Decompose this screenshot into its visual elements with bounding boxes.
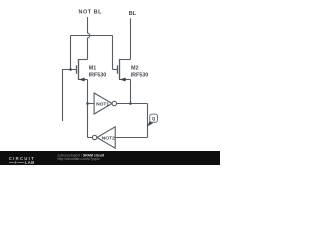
wire NOT2 output lead to left rail [88, 137, 93, 139]
wire NOT BL vertical to M1 drain (lower) [87, 38, 89, 60]
flag Q pointer [147, 121, 153, 127]
wire M2 gate lead [113, 69, 118, 71]
gate NOT1 bubble [112, 101, 116, 105]
transistor M1 source lead [79, 79, 88, 81]
svg-text:LAB: LAB [25, 160, 35, 165]
transistor M2 gate bar [117, 65, 119, 74]
wire NOT2 input from right rail [115, 137, 147, 139]
wire bus right end down to M2 gate [112, 36, 114, 70]
transistor M2 drain lead [120, 59, 131, 61]
transistor M2 source lead [120, 79, 131, 81]
transistor M1 source arrow [79, 78, 85, 82]
svg-text:M1: M1 [89, 65, 97, 71]
wire NOT1 input lead [88, 103, 95, 105]
gate NOT2 bubble [92, 135, 96, 139]
gate NOT1 triangle [94, 93, 112, 114]
svg-text:http://circuitlab.com/c/7pq4v: http://circuitlab.com/c/7pq4v [58, 157, 100, 161]
svg-text:M2: M2 [131, 65, 139, 71]
wire right rail down [147, 104, 149, 138]
svg-text:BL: BL [129, 11, 137, 17]
flag Q box [150, 114, 158, 122]
node junction M1 gate [69, 68, 72, 71]
transistor M1 channel bar [78, 59, 80, 80]
svg-text:NOT BL: NOT BL [79, 9, 103, 15]
transistor M1 gate bar [76, 65, 78, 74]
wire gate bus horizontal [71, 35, 113, 37]
transistor M2 channel bar [119, 59, 121, 80]
gate NOT2 triangle [97, 127, 115, 148]
transistor M2 source arrow [120, 78, 126, 82]
wire bus left end down to M1 gate [70, 36, 72, 70]
footer bar [0, 151, 220, 165]
svg-text:IRF530: IRF530 [131, 72, 149, 78]
node junction M2 source [129, 102, 132, 105]
wire NOT BL vertical to M1 drain (upper) [87, 17, 89, 33]
wire hop over gate bus [88, 33, 90, 38]
wire NOT1 output to right rail [117, 103, 148, 105]
transistor M1 drain lead [79, 59, 88, 61]
wire M1 gate lead [71, 69, 77, 71]
wire M1 source down to NOT2 output level [87, 80, 89, 138]
svg-text:IRF530: IRF530 [89, 72, 107, 78]
wire WL stub [63, 70, 71, 122]
svg-text:NOT2: NOT2 [102, 135, 115, 141]
wire M2 source down [130, 80, 132, 104]
footer logo wire glyph [9, 161, 24, 164]
svg-text:NOT1: NOT1 [96, 102, 109, 108]
node junction NOT1 input [86, 102, 89, 105]
svg-text:Q: Q [152, 116, 156, 121]
wire BL vertical to M2 drain [130, 18, 132, 59]
